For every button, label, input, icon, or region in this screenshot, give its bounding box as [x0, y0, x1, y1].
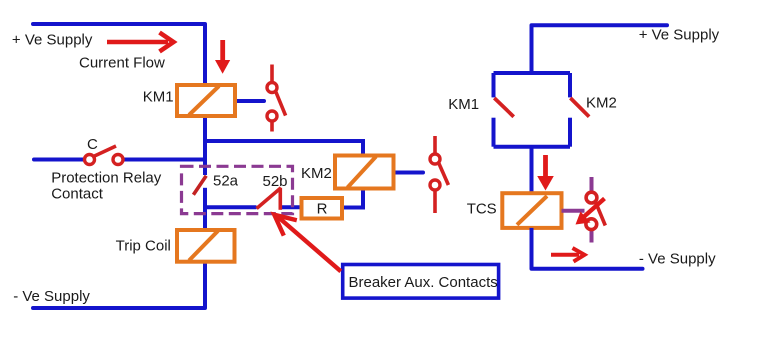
- wire: purple stub from TCS to contact: [562, 209, 585, 213]
- wire: right branch upper stub: [568, 73, 572, 97]
- wire: protection relay contact left segment: [34, 158, 84, 162]
- svg-text:Breaker Aux. Contacts: Breaker Aux. Contacts: [349, 274, 498, 291]
- svg-text:+ Ve Supply: + Ve Supply: [639, 27, 720, 44]
- arrow: current direction down beside TCS: [537, 155, 554, 191]
- svg-text:+ Ve Supply: + Ve Supply: [12, 31, 93, 48]
- wire: TCS bottom to -Ve rail: [530, 228, 534, 269]
- wire: horizontal right of 52b to resistor R: [282, 205, 304, 209]
- wire: left bottom rail (-Ve): [33, 306, 205, 310]
- svg-text:KM1: KM1: [143, 89, 174, 106]
- relay coil KM1: [177, 85, 235, 116]
- contact KM1 auxiliary (red): [267, 65, 286, 132]
- wire: trip coil bottom to -Ve rail: [203, 262, 207, 308]
- contact KM2 (right circuit, red blade): [570, 98, 589, 117]
- contact KM2 auxiliary (red): [430, 136, 448, 213]
- arrow: current flow right (bottom): [551, 248, 585, 262]
- relay trip coil: [177, 230, 235, 262]
- wire: 52a lower stub down to trip coil: [203, 188, 207, 230]
- arrow: callout to 52b contact: [274, 215, 341, 272]
- svg-text:TCS: TCS: [467, 200, 497, 217]
- arrow: current direction down beside KM1: [215, 40, 230, 74]
- relay coil TCS: [502, 193, 561, 228]
- arrow: current flow (red, right): [107, 33, 174, 52]
- wire: center vertical to TCS: [530, 147, 534, 194]
- arrow: annotation pointing at TCS contact: [576, 199, 605, 225]
- svg-text:C: C: [87, 136, 98, 153]
- wire: left branch lower stub: [492, 118, 496, 147]
- wire: KM1 coil bottom down to 52a contact: [203, 116, 207, 175]
- wire: branch to KM2 coil: [205, 141, 363, 156]
- resistor R: [302, 198, 343, 219]
- wire: right top rail (+Ve): [532, 23, 668, 27]
- svg-text:- Ve Supply: - Ve Supply: [13, 288, 90, 305]
- wire: parallel contacts top bar: [494, 71, 571, 75]
- svg-text:- Ve Supply: - Ve Supply: [639, 251, 716, 268]
- svg-text:KM1: KM1: [448, 96, 479, 113]
- svg-text:Trip Coil: Trip Coil: [116, 237, 171, 254]
- wire: left branch upper stub: [492, 73, 496, 97]
- wire: main vertical supply to KM1 coil: [203, 24, 207, 85]
- svg-text:Contact: Contact: [51, 185, 104, 202]
- callout box: Breaker Aux. Contacts: [343, 265, 499, 299]
- wire: right vertical from top rail: [530, 25, 534, 73]
- wire: KM2 coil bottom to resistor R: [341, 189, 363, 208]
- wire: right branch lower stub: [568, 118, 572, 147]
- svg-text:KM2: KM2: [301, 165, 332, 182]
- contact KM1 (right circuit, red blade): [494, 98, 513, 117]
- svg-text:52a: 52a: [213, 172, 239, 189]
- dashed box: breaker aux contacts region: [182, 166, 293, 213]
- wire: KM2 coil right stub: [394, 171, 424, 175]
- wire: protection relay contact right segment to node: [124, 158, 205, 162]
- wire: left top rail (+Ve): [33, 22, 205, 26]
- wire: horizontal inside dashed box, left of 52b: [205, 205, 257, 209]
- contact 52a (red): [193, 176, 206, 195]
- wire: right bottom rail (-Ve): [532, 267, 643, 271]
- svg-text:Protection Relay: Protection Relay: [51, 170, 162, 187]
- wire: parallel contacts bottom bar: [494, 145, 571, 149]
- contact C protection relay (red): [85, 146, 124, 165]
- svg-text:KM2: KM2: [586, 94, 617, 111]
- relay coil KM2: [335, 156, 394, 189]
- contact TCS supervision (purple stems, red circles): [586, 177, 605, 243]
- wire: KM1 coil right stub: [235, 99, 264, 103]
- svg-text:Current Flow: Current Flow: [79, 54, 165, 71]
- contact 52b (red): [257, 188, 281, 210]
- svg-text:R: R: [317, 201, 328, 218]
- svg-text:52b: 52b: [263, 173, 288, 190]
